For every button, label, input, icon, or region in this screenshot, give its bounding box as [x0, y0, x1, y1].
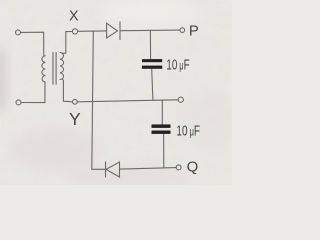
wire secondary bottom lead to node Y: [63, 79, 73, 102]
wire secondary top lead to node X: [62, 32, 72, 54]
terminal Q: [176, 165, 181, 170]
svg-text:10 μF: 10 μF: [176, 122, 200, 139]
transformer secondary winding: [60, 52, 63, 79]
node Y terminal: [73, 99, 78, 104]
wire middle rail Y to mid terminal: [77, 100, 178, 102]
wire capacitor C1 bottom lead: [152, 69, 153, 100]
input terminal T1 (top-left): [16, 30, 21, 35]
svg-text:Q: Q: [187, 158, 199, 175]
wire D1 to P: [120, 29, 180, 32]
wire T1 to primary top: [21, 32, 44, 56]
mid-right terminal: [178, 97, 183, 102]
background paper: [0, 0, 232, 185]
terminal P: [180, 28, 185, 33]
svg-text:10 μF: 10 μF: [166, 56, 189, 73]
svg-text:X: X: [69, 8, 79, 24]
node X terminal: [72, 29, 77, 34]
transformer core: [53, 53, 56, 85]
wire capacitor C2 bottom lead: [163, 134, 165, 168]
wire branch X-rail down to bottom rail: [92, 31, 94, 169]
wire capacitor C1 top lead: [149, 30, 151, 59]
diode D2: [106, 162, 120, 177]
svg-text:P: P: [189, 24, 199, 40]
transformer primary winding: [42, 56, 45, 82]
input terminal T2 (bottom-left): [16, 100, 21, 105]
wire bottom rail left to D2: [92, 168, 106, 170]
wire primary bottom lead: [21, 82, 45, 103]
wire D2 to Q: [120, 168, 177, 170]
capacitor C1 plates: [142, 59, 162, 62]
diode D1: [107, 22, 120, 40]
svg-text:Y: Y: [69, 109, 81, 129]
wire X to diode D1: [78, 30, 107, 32]
capacitor C2 plates: [152, 124, 171, 128]
wire capacitor C2 top lead: [161, 100, 163, 124]
